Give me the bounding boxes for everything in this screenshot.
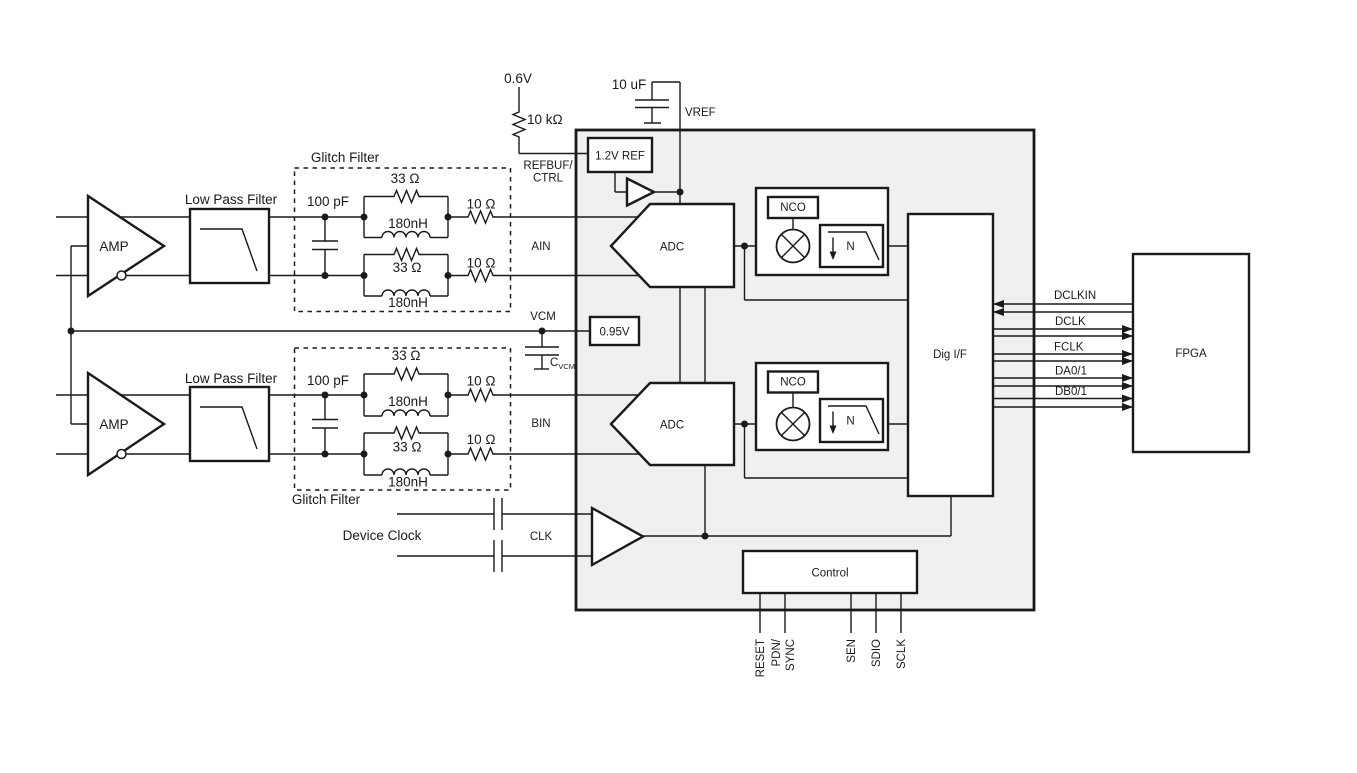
svg-text:100 pF: 100 pF [307,373,349,388]
svg-text:SCLK: SCLK [896,639,908,669]
svg-text:33 Ω: 33 Ω [392,348,421,363]
wire A- R to ADC [494,275,648,277]
svg-text:Glitch Filter: Glitch Filter [311,150,380,165]
resistor 10 ohm (A-) [466,256,495,282]
svg-text:10 Ω: 10 Ω [467,432,496,447]
resistor 33 ohm / inductor 180nH parallel (B-) [361,427,452,490]
svg-text:DA0/1: DA0/1 [1055,366,1087,378]
node ADC A output junction [741,243,748,250]
svg-text:Device Clock: Device Clock [343,528,422,543]
capacitor CVCM [525,331,575,371]
capacitor 100 pF (channel B) [307,373,349,458]
wire clock to ADC B [704,465,706,536]
pin SDIO wire [875,593,877,633]
device clock input wires [397,513,592,515]
wire ADC A bypass to Dig I/F [745,246,909,300]
wire B+ LPF to combo [269,394,364,396]
wire 1.2V REF to buffer [615,172,627,192]
buffer amp (reference) [627,179,654,206]
ADC B pentagon [611,383,734,465]
svg-text:FPGA: FPGA [1175,348,1207,360]
svg-text:SDIO: SDIO [871,639,883,667]
coupling capacitor CLK+ [494,498,502,530]
svg-text:180nH: 180nH [388,475,428,490]
svg-text:Control: Control [811,568,848,580]
svg-text:NCO: NCO [780,202,806,214]
pin PDN/SYNC wire [784,593,786,633]
wire B+ R to ADC [494,394,648,396]
capacitor 10 uF [612,77,680,123]
wire DDC A to Dig I/F [888,245,908,247]
net FCLK wires [993,354,1133,361]
voltage box 0.95V [590,317,639,345]
svg-text:DCLK: DCLK [1055,316,1086,328]
node clock junction [702,533,709,540]
wire DDC B to Dig I/F [888,423,908,425]
svg-text:PDN/: PDN/ [771,638,783,666]
svg-text:RESET: RESET [755,639,767,677]
coupling capacitor CLK- [494,540,502,572]
resistor 10 ohm (A+) [466,197,495,224]
net DA0/1 wires [993,378,1133,386]
svg-text:10 Ω: 10 Ω [467,256,496,271]
svg-text:ADC: ADC [660,420,684,432]
wire B- input [56,453,190,455]
op-amp AMP (channel A) [88,196,164,296]
resistor 33 ohm / inductor 180nH parallel (A-) [361,249,452,311]
node VREF junction [677,189,684,196]
wire ADC B output [734,423,756,425]
wire ADC A output [734,245,756,247]
svg-text:33 Ω: 33 Ω [391,171,420,186]
svg-text:BIN: BIN [531,418,550,430]
svg-text:CTRL: CTRL [533,173,564,185]
glitch filter box (channel B) [292,348,511,507]
DDC block B [756,363,888,450]
wire B- combo to R [448,453,466,455]
svg-text:N: N [846,241,854,253]
net DCLK wires [993,329,1133,336]
svg-text:180nH: 180nH [388,295,428,310]
wire A+ LPF to combo [269,216,364,218]
svg-text:DB0/1: DB0/1 [1055,386,1087,398]
glitch filter box (channel A) [295,150,511,312]
wire A+ combo to R [448,216,466,218]
resistor 10 ohm (B+) [466,374,495,402]
op-amp AMP (channel B) [88,373,164,475]
node VCM junction [539,328,546,335]
wire A- input [56,275,190,277]
svg-text:10 kΩ: 10 kΩ [527,112,563,127]
svg-text:ADC: ADC [660,242,684,254]
resistor 10 ohm (B-) [466,432,495,460]
wire B+ input [56,394,190,396]
resistor 10 kOhm [513,110,563,139]
svg-text:AIN: AIN [531,241,550,253]
resistor 33 ohm / inductor 180nH parallel (B+) [361,348,452,416]
svg-text:33 Ω: 33 Ω [393,440,422,455]
net DB0/1 wires [993,399,1133,408]
Control block [743,551,917,593]
wire VCM vertical [71,246,88,424]
wire A+ input [56,216,190,218]
wire B+ combo to R [448,394,466,396]
svg-text:10 uF: 10 uF [612,77,647,92]
wire ADC B bypass to Dig I/F [745,424,909,478]
svg-text:10 Ω: 10 Ω [467,197,496,212]
DDC block A [756,188,888,275]
svg-text:33 Ω: 33 Ω [393,260,422,275]
svg-text:0.6V: 0.6V [504,71,532,86]
svg-text:Low Pass Filter: Low Pass Filter [185,192,278,207]
svg-text:VREF: VREF [685,107,716,119]
svg-text:100 pF: 100 pF [307,194,349,209]
svg-text:1.2V REF: 1.2V REF [595,151,645,163]
ADC chip body (gray) [576,130,1034,610]
svg-text:180nH: 180nH [388,216,428,231]
svg-text:Glitch Filter: Glitch Filter [292,492,361,507]
pin SEN wire [850,593,852,633]
low pass filter (channel B) [185,371,278,461]
svg-text:AMP: AMP [99,417,128,432]
wire resistor to REFBUF [519,139,588,154]
pin RESET wire [759,593,761,633]
svg-text:0.95V: 0.95V [599,327,629,339]
low pass filter (channel A) [185,192,278,283]
svg-text:180nH: 180nH [388,394,428,409]
pin SCLK wire [900,593,902,633]
svg-text:CLK: CLK [530,531,553,543]
svg-text:AMP: AMP [99,239,128,254]
reference box 1.2V REF [588,138,652,172]
ADC A pentagon [611,204,734,287]
svg-text:FCLK: FCLK [1054,342,1084,354]
wire VREF between ADCs [679,287,681,383]
svg-text:NCO: NCO [780,377,806,389]
svg-text:Dig I/F: Dig I/F [933,349,967,361]
svg-text:N: N [846,416,854,428]
wire VCM horizontal [71,330,590,332]
wire clock between ADCs [704,287,706,383]
wire buffer to VREF node [654,191,680,193]
svg-text:SEN: SEN [846,639,858,663]
wire A- LPF to combo [269,275,364,277]
FPGA block [1133,254,1249,452]
svg-text:VCM: VCM [530,311,556,323]
wire B- LPF to combo [269,453,364,455]
Dig I/F block [908,214,993,496]
svg-text:Low Pass Filter: Low Pass Filter [185,371,278,386]
net DCLKIN wires [993,304,1133,312]
svg-text:10 Ω: 10 Ω [467,374,496,389]
capacitor 100 pF (channel A) [307,194,349,279]
wire VREF vertical [679,82,681,204]
node VCM at amp feed [68,328,75,335]
node ADC B output junction [741,421,748,428]
svg-text:DCLKIN: DCLKIN [1054,290,1096,302]
wire clock buffer output [643,496,951,536]
wire A- combo to R [448,275,466,277]
wire A+ R to ADC [494,216,648,218]
clock buffer amp [592,508,643,565]
wire 0.6V to resistor [518,87,520,110]
wire B- R to ADC [494,453,648,455]
resistor 33 ohm / inductor 180nH parallel (A+) [361,171,452,238]
svg-text:SYNC: SYNC [785,639,797,671]
svg-text:REFBUF/: REFBUF/ [523,160,573,172]
